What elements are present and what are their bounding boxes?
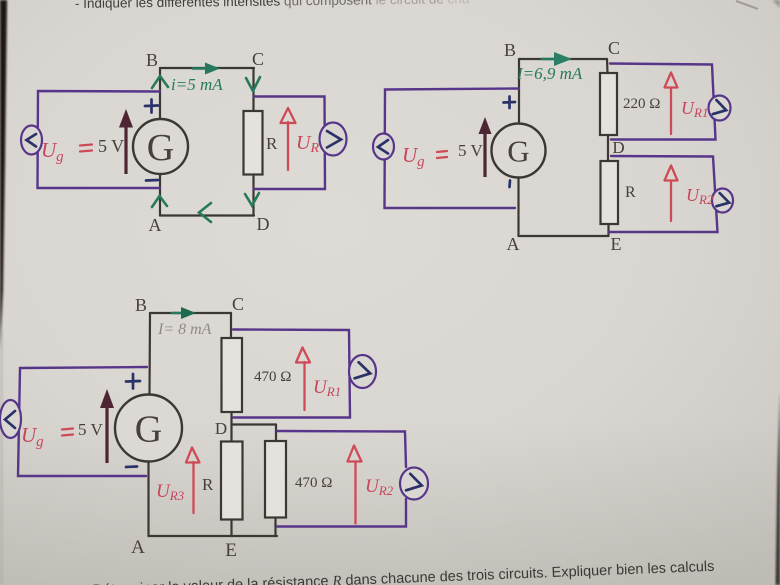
purple loop UR (circuit 1) bbox=[254, 97, 326, 190]
wire D junction horizontal bbox=[232, 423, 277, 425]
green chevron up at B bbox=[152, 76, 168, 88]
resistor 470 ohm upper bbox=[222, 338, 243, 412]
wire B-C top bbox=[519, 58, 607, 60]
red arrow UR2 (c3) bbox=[354, 462, 356, 524]
resistor R (circuit 2) bbox=[601, 161, 619, 224]
green chevron left bottom wire bbox=[199, 203, 211, 222]
equals (c1) bbox=[80, 145, 92, 152]
wire B to generator bbox=[518, 59, 520, 124]
svg-text:R: R bbox=[625, 184, 636, 201]
generator G3 bbox=[115, 395, 182, 462]
minus tick (c2) bbox=[508, 181, 511, 188]
wire C to resistor bbox=[252, 68, 254, 111]
svg-text:5 V: 5 V bbox=[458, 141, 483, 160]
wire generator to A bbox=[159, 174, 161, 216]
voltmeter bubble < (Ug c3) bbox=[0, 400, 21, 438]
red arrow UR3 (c3) bbox=[192, 462, 194, 513]
wire C to 470ohm-1 bbox=[230, 313, 232, 338]
green chevron down at D bbox=[245, 193, 259, 206]
svg-text:E: E bbox=[611, 234, 622, 254]
wire R to bottom bbox=[230, 520, 232, 537]
generator G1 bbox=[133, 119, 188, 174]
svg-text:R: R bbox=[266, 134, 278, 153]
wire A-E bottom bbox=[149, 535, 278, 537]
plus (c1) bbox=[145, 100, 158, 113]
equals (c3) bbox=[62, 429, 73, 436]
svg-text:D: D bbox=[257, 214, 270, 234]
wire B to generator bbox=[148, 313, 151, 395]
green current arrow B-C (c3) bbox=[172, 312, 183, 315]
wire B to generator bbox=[159, 68, 161, 119]
red arrow UR2 (c2) bbox=[670, 181, 672, 221]
svg-text:I= 8 mA: I= 8 mA bbox=[157, 321, 212, 338]
svg-text:R: R bbox=[202, 475, 214, 494]
wire 470ohm-1 to D junction bbox=[230, 412, 232, 442]
svg-text:C: C bbox=[252, 49, 264, 69]
svg-text:E: E bbox=[225, 540, 237, 561]
plus (c3) bbox=[126, 374, 140, 389]
red arrow UR (c1) bbox=[287, 122, 289, 170]
left paper edge shadow bbox=[0, 330, 3, 585]
svg-text:I=6,9 mA: I=6,9 mA bbox=[516, 64, 583, 83]
voltmeter bubble < (Ug c2) bbox=[373, 134, 394, 160]
wire generator to A bbox=[147, 462, 149, 537]
svg-text:G: G bbox=[147, 127, 174, 169]
equals (c2) bbox=[437, 151, 447, 158]
maroon arrow Ug (c2) bbox=[483, 132, 486, 177]
maroon arrow Ug (c3) bbox=[105, 406, 108, 463]
dark photo edge top-left bbox=[0, 0, 7, 350]
purple loop UR2 (c3) bbox=[277, 431, 406, 527]
wire C to 220ohm bbox=[606, 59, 609, 73]
purple loop Ug (circuit 3) bbox=[18, 367, 147, 476]
voltmeter bubble > (UR1 c2) bbox=[709, 96, 731, 121]
svg-text:B: B bbox=[146, 50, 158, 70]
svg-text:470 Ω: 470 Ω bbox=[295, 475, 332, 491]
svg-text:i=5 mA: i=5 mA bbox=[171, 75, 223, 94]
svg-text:B: B bbox=[504, 40, 516, 60]
wire A-E bottom bbox=[519, 235, 608, 237]
generator G2 bbox=[492, 124, 546, 178]
resistor R (circuit 1) bbox=[244, 111, 263, 175]
purple loop Ug (circuit 2) bbox=[385, 89, 520, 209]
svg-text:G: G bbox=[507, 134, 529, 169]
green current arrow B-C (c2) bbox=[542, 58, 557, 61]
purple loop UR1 (c2) bbox=[610, 64, 716, 140]
svg-text:5 V: 5 V bbox=[78, 420, 103, 439]
wire A-D bottom bbox=[160, 214, 254, 216]
svg-text:A: A bbox=[507, 234, 520, 254]
svg-text:A: A bbox=[149, 215, 162, 235]
green chevron up at A bbox=[152, 196, 167, 207]
red arrow UR1 (c3) bbox=[303, 362, 305, 410]
wire generator to A bbox=[517, 177, 519, 236]
minus (c3) bbox=[126, 465, 137, 468]
voltmeter bubble > (UR c1) bbox=[320, 123, 347, 156]
minus (c1) bbox=[146, 179, 158, 182]
svg-text:5 V: 5 V bbox=[98, 136, 124, 156]
voltmeter bubble > (UR2 c2) bbox=[712, 189, 733, 213]
wire R to E bbox=[607, 224, 609, 236]
purple loop Ug (circuit 1) bbox=[38, 91, 161, 188]
purple loop UR2 (c2) bbox=[609, 156, 718, 232]
wire resistor to D bbox=[252, 175, 254, 216]
svg-text:G: G bbox=[135, 409, 162, 451]
voltmeter bubble < (Ug c1) bbox=[21, 126, 42, 155]
maroon arrow Ug (c1) bbox=[124, 124, 127, 174]
resistor 470 ohm lower bbox=[265, 441, 286, 518]
plus (c2) bbox=[504, 97, 516, 109]
svg-text:C: C bbox=[608, 38, 620, 58]
wire down to 470ohm-2 bbox=[275, 425, 277, 442]
svg-text:470 Ω: 470 Ω bbox=[254, 369, 291, 385]
wire 470ohm-2 to bottom bbox=[274, 518, 276, 537]
purple loop UR1 (c3) bbox=[233, 330, 350, 418]
green chevron down at C bbox=[246, 77, 260, 91]
faint pen mark top-right bbox=[736, 1, 758, 9]
svg-text:D: D bbox=[215, 419, 227, 438]
resistor R (circuit 3) bbox=[221, 442, 243, 520]
svg-text:220 Ω: 220 Ω bbox=[623, 96, 660, 112]
green current arrow B-C bbox=[193, 67, 210, 70]
voltmeter bubble > (UR2 c3) bbox=[400, 468, 428, 500]
svg-text:C: C bbox=[232, 294, 244, 314]
resistor 220 ohm bbox=[600, 73, 617, 135]
voltmeter bubble > (UR1 c3) bbox=[349, 355, 376, 388]
wire 220ohm to R via D bbox=[607, 135, 609, 161]
svg-text:A: A bbox=[131, 537, 145, 558]
dark photo edge right-bottom bbox=[776, 390, 780, 585]
red arrow UR1 (c2) bbox=[670, 88, 672, 134]
svg-text:B: B bbox=[135, 295, 147, 315]
wire B-C top bbox=[160, 67, 254, 69]
wire B-C top bbox=[150, 312, 231, 314]
svg-text:D: D bbox=[612, 138, 624, 157]
